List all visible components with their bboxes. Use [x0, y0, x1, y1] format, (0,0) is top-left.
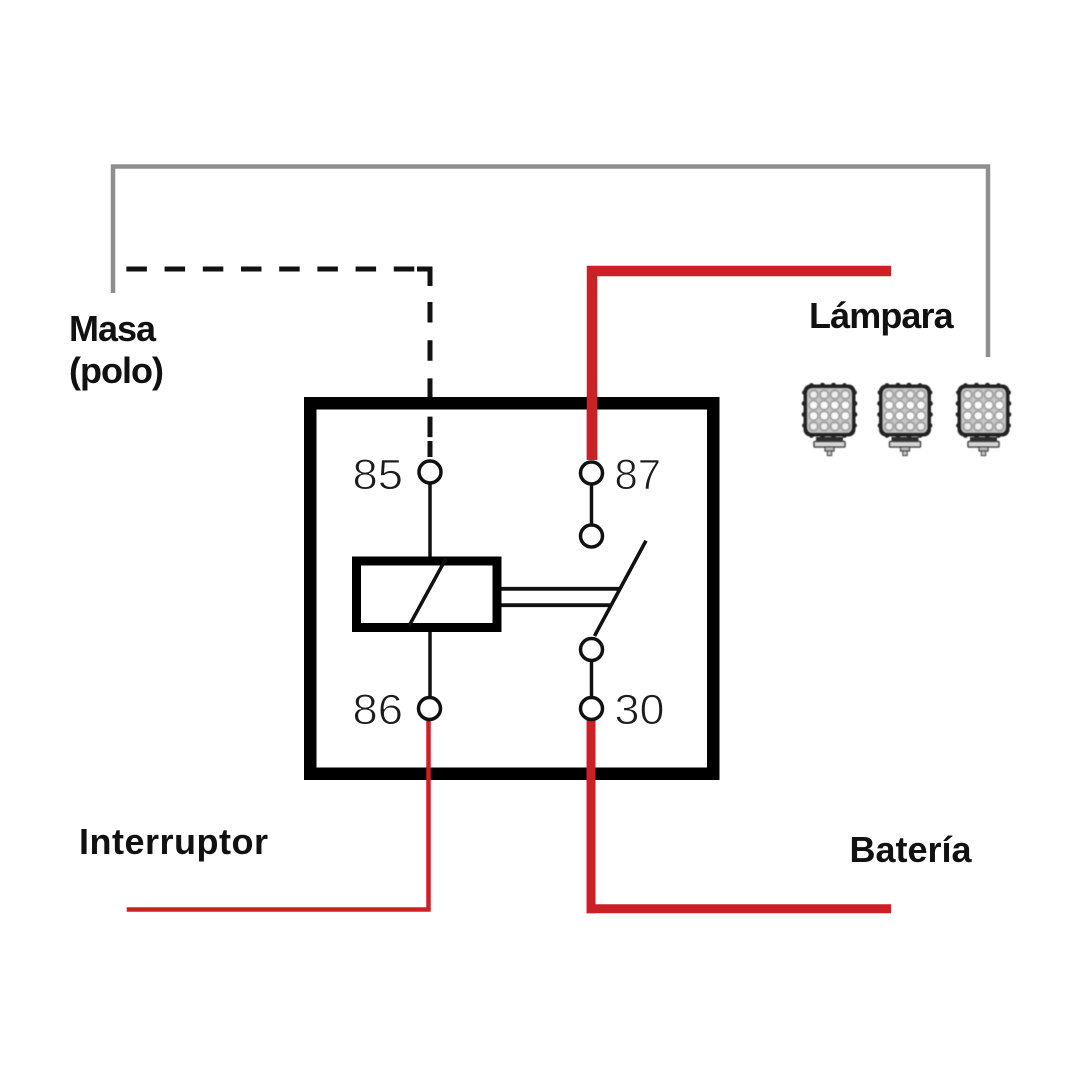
svg-text:Interruptor: Interruptor — [79, 821, 269, 862]
svg-text:(polo): (polo) — [69, 350, 163, 391]
svg-text:Batería: Batería — [850, 829, 973, 870]
svg-text:85: 85 — [353, 451, 404, 499]
svg-text:86: 86 — [353, 686, 404, 734]
svg-text:Masa: Masa — [69, 308, 157, 349]
svg-text:87: 87 — [615, 451, 662, 499]
svg-text:30: 30 — [615, 686, 665, 734]
svg-text:Lámpara: Lámpara — [809, 295, 955, 336]
